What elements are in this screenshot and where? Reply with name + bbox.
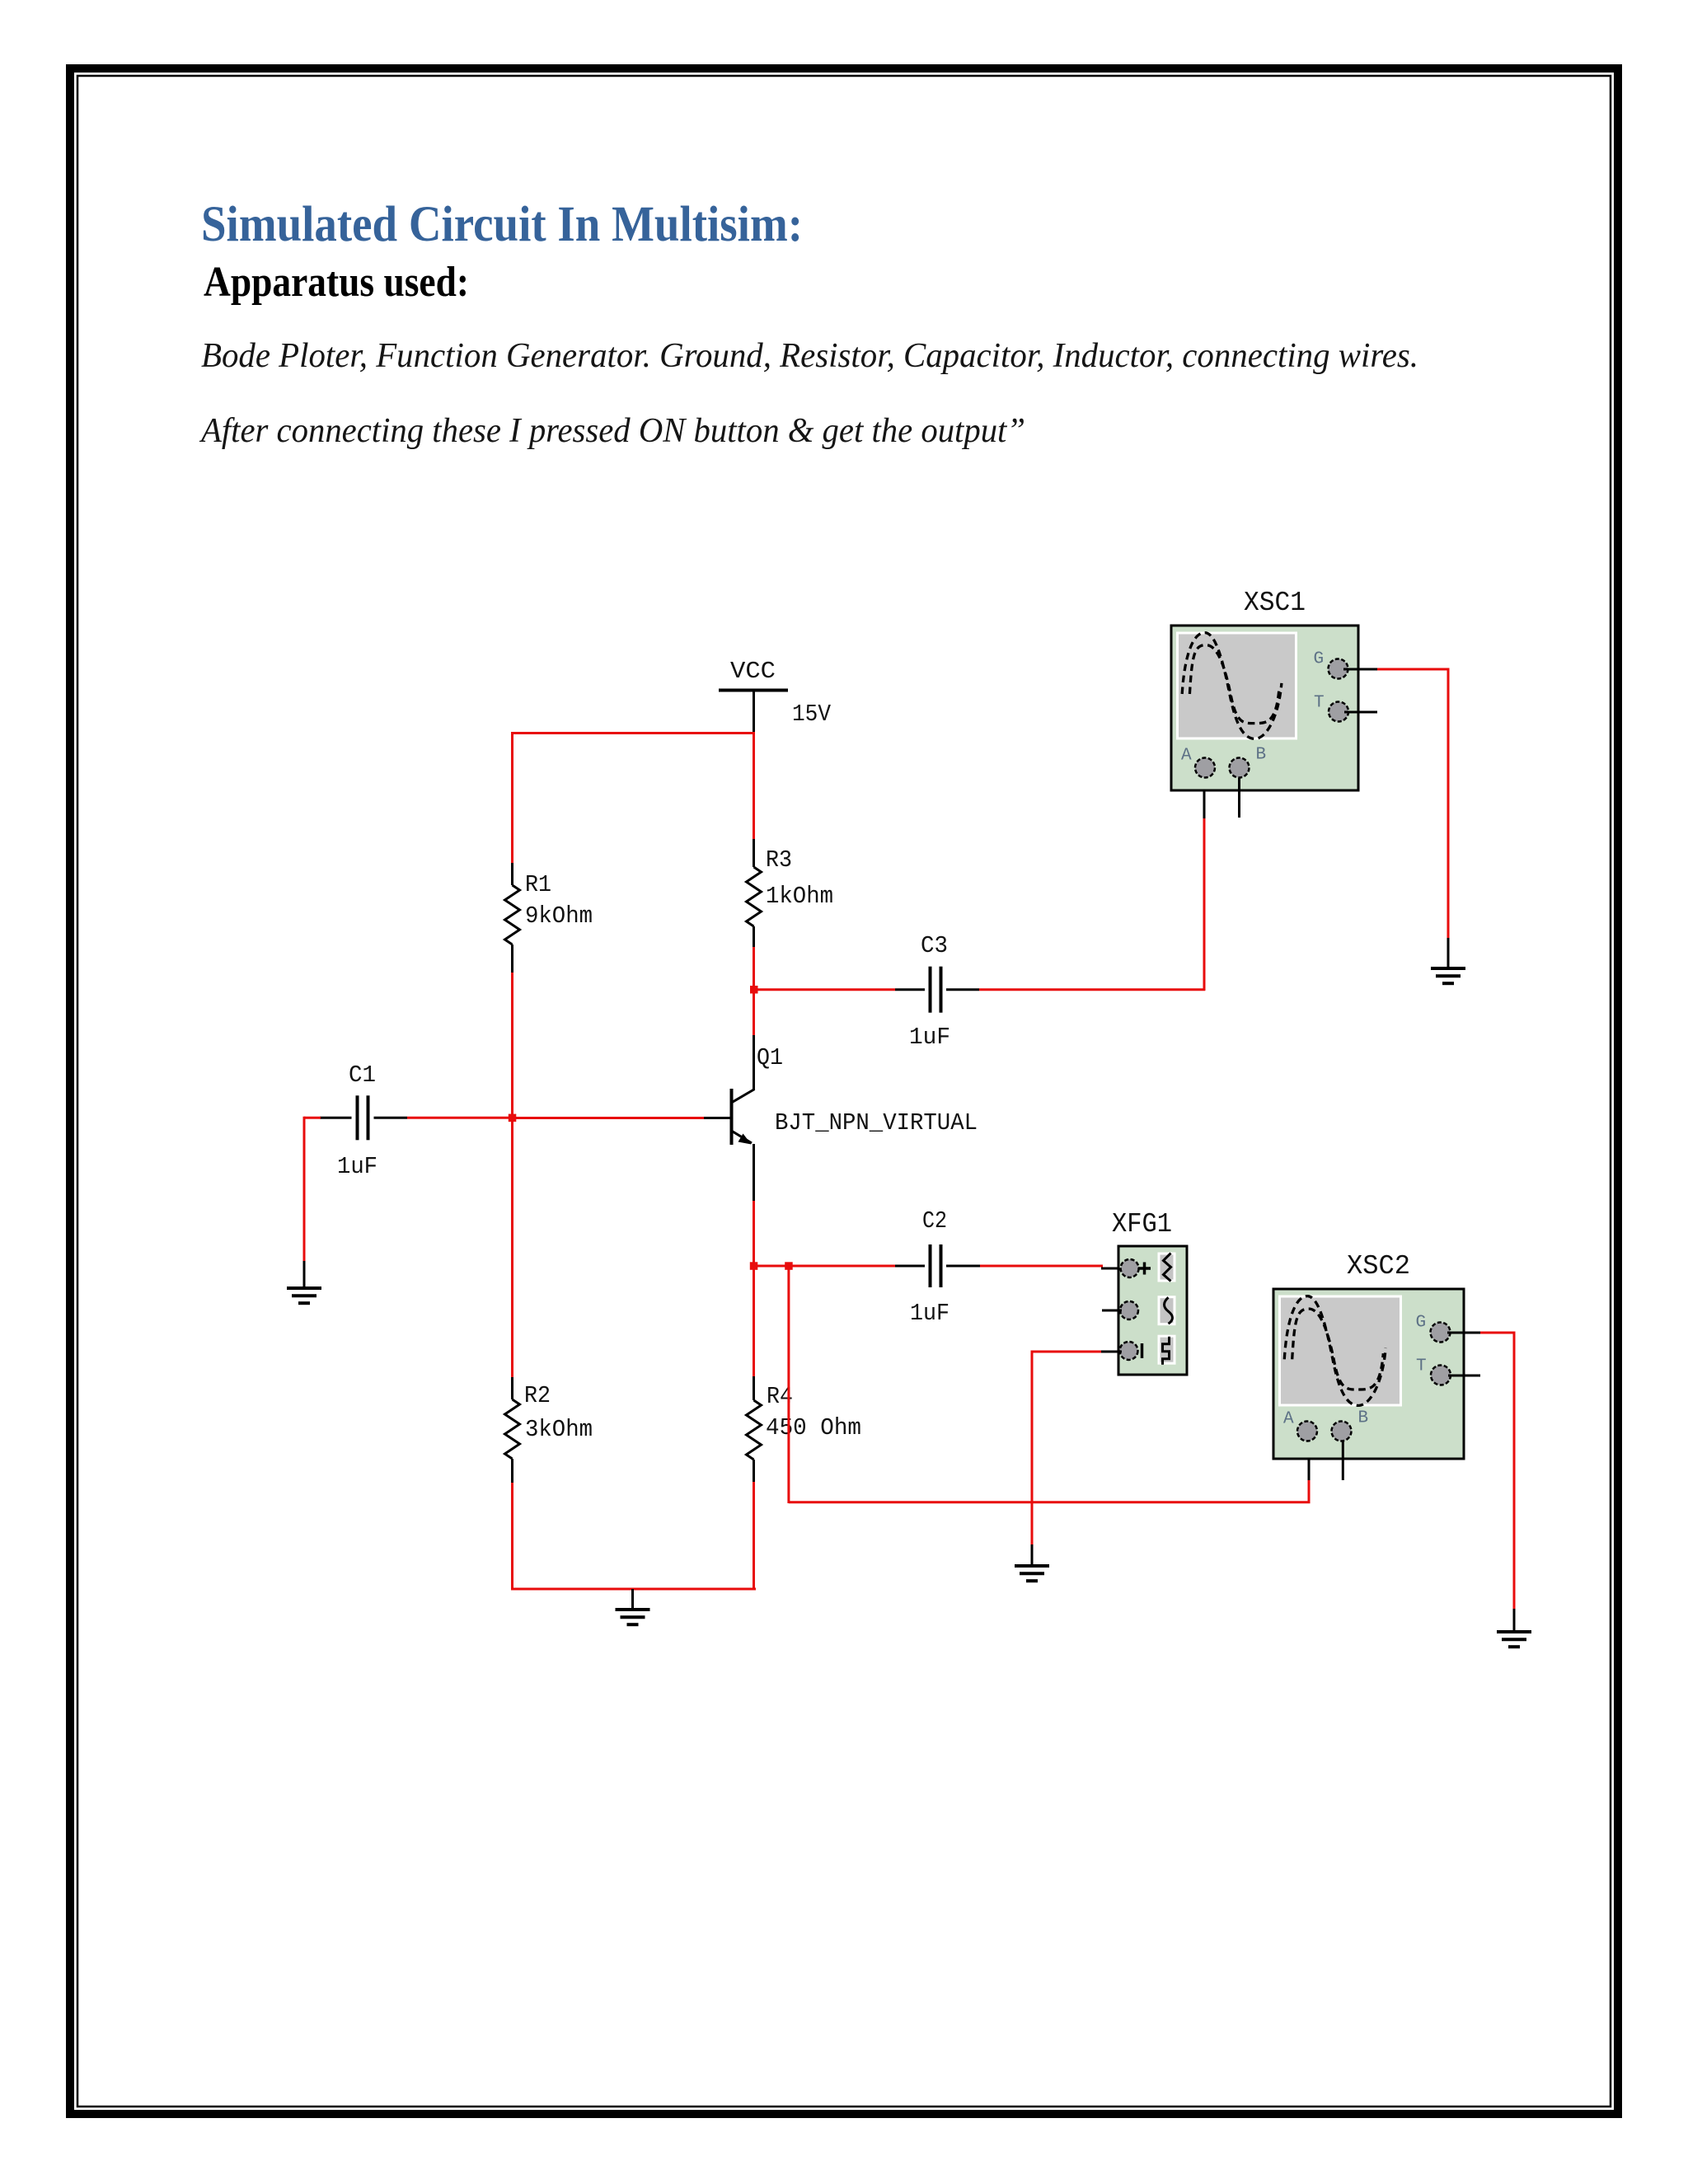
svg-text:G: G (1314, 650, 1325, 669)
XSC1 terminal A (1195, 758, 1215, 778)
wire VCC to R1 top (horizontal) (511, 732, 755, 734)
svg-text:T: T (1416, 1357, 1427, 1376)
oscilloscope XSC1 (1171, 626, 1358, 790)
svg-text:C1: C1 (349, 1062, 376, 1089)
XFG1 terminal minus (1120, 1342, 1138, 1360)
svg-text:Q1: Q1 (757, 1044, 783, 1071)
wire collector node to C3 (754, 988, 896, 991)
wire ground rail (bottom) (511, 1588, 756, 1591)
transistor Q1 (703, 1035, 755, 1201)
power VCC symbol (719, 691, 788, 733)
XFG1 minus sign (1141, 1343, 1144, 1358)
svg-text:T: T (1314, 694, 1325, 713)
wire C2 to XFG1 plus terminal (980, 1265, 1103, 1268)
ground below XFG1 (1015, 1544, 1049, 1581)
resistor R2 (505, 1377, 520, 1483)
wire XFG1 common stub (1102, 1310, 1122, 1312)
svg-text:R2: R2 (524, 1382, 551, 1409)
ground below C1 (287, 1261, 321, 1303)
wire C1 to base node (407, 1117, 513, 1119)
XFG1 terminal common (1120, 1301, 1138, 1319)
capacitor C3 (895, 967, 979, 1013)
wire to XSC2 A (horizontal) (789, 1501, 1311, 1503)
svg-text:Bode Ploter, Function Generato: Bode Ploter, Function Generator. Ground,… (201, 337, 1418, 375)
wire XSC1 G lead (black) (1343, 668, 1378, 671)
svg-text:15V: 15V (792, 701, 832, 728)
wire VCC to R3 top (vertical) (753, 733, 755, 840)
ground bottom right (1497, 1609, 1531, 1647)
wire XSC1 G to ground (red) (1377, 669, 1450, 938)
svg-text:After connecting these I press: After connecting these I pressed ON butt… (199, 412, 1025, 450)
wire R4 bottom to ground rail (753, 1482, 755, 1591)
svg-text:VCC: VCC (730, 658, 776, 685)
junction node emitter tap (785, 1262, 793, 1270)
wire XFG1 plus lead (black) (1101, 1268, 1123, 1270)
XFG1 waveform icon sine (1158, 1253, 1176, 1282)
svg-text:3kOhm: 3kOhm (525, 1416, 593, 1443)
XFG1 terminal plus (1121, 1259, 1139, 1277)
wire XSC2 A lead (black) (1308, 1441, 1311, 1480)
XSC2 terminal T (1431, 1366, 1451, 1385)
svg-text:B: B (1358, 1409, 1369, 1428)
wire R1 bottom to base node (511, 972, 513, 1119)
svg-text:1uF: 1uF (909, 1024, 950, 1051)
wire XSC1 A lead (black) (1203, 778, 1206, 818)
wire emitter tap down to XSC2 A rail (787, 1266, 790, 1503)
junction node collector (750, 986, 758, 994)
svg-text:450 Ohm: 450 Ohm (766, 1414, 861, 1441)
wire base node to Q1 base (513, 1117, 705, 1119)
resistor R1 (505, 863, 520, 972)
svg-text:C3: C3 (921, 932, 948, 959)
svg-text:XFG1: XFG1 (1112, 1209, 1172, 1240)
wire XFG1 minus to ground (red) (1031, 1352, 1102, 1544)
svg-text:R3: R3 (766, 846, 792, 874)
svg-text:XSC2: XSC2 (1347, 1251, 1410, 1282)
XFG1 waveform icon square (1158, 1335, 1176, 1365)
junction node emitter (750, 1262, 758, 1270)
XSC2 terminal A (1297, 1422, 1317, 1441)
wire emitter node down to R4 (753, 1266, 755, 1376)
wire C1 left elbow down (304, 1117, 321, 1261)
wire XSC1 B stub (1238, 778, 1240, 818)
XSC1 terminal B (1230, 758, 1250, 778)
wire XFG1 minus lead (black) (1101, 1351, 1122, 1353)
wire C3 to XSC1 A (horizontal then up) (979, 818, 1205, 991)
wire XSC2 T stub (1448, 1375, 1480, 1377)
svg-text:Simulated Circuit In Multisim:: Simulated Circuit In Multisim: (201, 197, 803, 252)
svg-text:A: A (1283, 1410, 1294, 1429)
svg-text:BJT_NPN_VIRTUAL: BJT_NPN_VIRTUAL (775, 1109, 978, 1137)
wire R3 bottom to collector node (753, 947, 755, 1035)
svg-text:B: B (1256, 746, 1267, 765)
wire base node down to R2 (511, 1118, 513, 1377)
wire R2 bottom to ground rail (511, 1483, 513, 1591)
wire Q1 emitter down to emitter node (753, 1201, 755, 1268)
svg-text:R1: R1 (525, 871, 551, 898)
svg-text:Apparatus used:: Apparatus used: (204, 259, 469, 306)
svg-text:C2: C2 (922, 1207, 947, 1235)
XSC2 terminal B (1332, 1422, 1352, 1441)
capacitor C2 (895, 1244, 980, 1287)
svg-text:1uF: 1uF (910, 1300, 949, 1327)
svg-text:9kOhm: 9kOhm (525, 902, 593, 930)
function generator XFG1 (1118, 1246, 1187, 1375)
resistor R3 (747, 839, 762, 947)
wire emitter node to C2 (754, 1265, 896, 1268)
XFG1 plus sign (1138, 1267, 1151, 1270)
wire XSC2 G to ground (red) (1480, 1333, 1516, 1609)
resistor R4 (747, 1376, 762, 1482)
svg-text:A: A (1181, 747, 1192, 766)
svg-text:1uF: 1uF (337, 1153, 377, 1180)
svg-text:1kOhm: 1kOhm (766, 883, 833, 910)
svg-text:XSC1: XSC1 (1244, 588, 1306, 618)
wire left rail down to R1 (511, 732, 513, 863)
oscilloscope XSC2 (1273, 1289, 1464, 1459)
XSC1 terminal T (1329, 702, 1348, 722)
capacitor C1 (320, 1095, 407, 1140)
wire XSC1 T stub (1344, 711, 1377, 714)
ground below bottom rail (616, 1589, 650, 1624)
wire XSC2 B stub (1342, 1441, 1344, 1480)
XSC2 terminal G (1431, 1323, 1451, 1343)
XSC1 terminal G (1329, 659, 1348, 679)
ground below XSC1 G wire (1431, 938, 1465, 983)
wire up to XSC2 A terminal (1308, 1479, 1311, 1503)
junction node base (509, 1114, 517, 1122)
svg-text:G: G (1416, 1314, 1427, 1333)
wire XSC2 G lead (black) (1447, 1332, 1481, 1334)
XFG1 waveform icon sine2 (1158, 1296, 1176, 1325)
